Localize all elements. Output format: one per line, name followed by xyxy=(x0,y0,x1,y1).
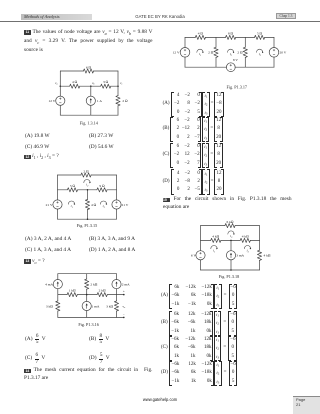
resistor 2kohm centre xyxy=(85,279,89,289)
svg-text:+: + xyxy=(123,290,125,294)
resistor 2ohm branch1 xyxy=(214,47,218,57)
svg-text:3 mA: 3 mA xyxy=(236,254,244,258)
svg-text:i1: i1 xyxy=(199,52,201,57)
wire: circuit3 right rail xyxy=(116,274,118,280)
current source 1A xyxy=(86,96,95,105)
wire: circuit2 top rail xyxy=(58,174,82,176)
resistor 4kohm right xyxy=(240,238,250,242)
wire: circuit1 right rail xyxy=(117,71,119,96)
wire: circuit2 right rail xyxy=(116,175,118,200)
svg-text:6 V: 6 V xyxy=(191,254,197,258)
wire: circuit2 centre branch xyxy=(87,190,89,200)
svg-text:i1: i1 xyxy=(213,249,215,254)
svg-text:Fig. P1.3.15: Fig. P1.3.15 xyxy=(77,223,97,228)
svg-text:4 Ω: 4 Ω xyxy=(72,80,78,84)
resistor 4kohm left xyxy=(211,238,221,242)
wire: circuit1 bottom rail xyxy=(60,114,118,116)
resistor 9ohm xyxy=(97,188,107,192)
svg-text:3 kΩ: 3 kΩ xyxy=(46,304,53,308)
svg-text:2 mA: 2 mA xyxy=(122,282,130,286)
svg-text:4 Ω: 4 Ω xyxy=(91,203,97,207)
node b xyxy=(90,85,92,87)
voltage source 6V xyxy=(196,251,205,260)
svg-text:2 Ω: 2 Ω xyxy=(83,169,89,173)
mesh current i3 xyxy=(100,201,106,204)
svg-text:1 A: 1 A xyxy=(97,99,102,103)
svg-text:i3: i3 xyxy=(259,52,262,57)
wire: circuit3 bottom rail xyxy=(58,316,117,318)
resistor 8ohm xyxy=(226,35,236,39)
wire: circuit2 left rail xyxy=(57,175,59,200)
wire: vo stub bottom xyxy=(117,316,124,318)
current source 2mA xyxy=(112,280,121,289)
svg-text:Fig. P1.3.18: Fig. P1.3.18 xyxy=(219,274,239,279)
voltage source 12V xyxy=(56,96,65,105)
svg-text:2 Ω: 2 Ω xyxy=(237,51,243,55)
wire: circuit5 middle rail xyxy=(201,239,211,241)
resistor 1kohm xyxy=(67,293,77,297)
footer xyxy=(0,397,320,402)
wire: circuit4 vertical branch 2 xyxy=(244,37,246,47)
svg-text:i2: i2 xyxy=(86,183,89,188)
voltage source 21V left xyxy=(53,200,62,209)
current source 3mA xyxy=(226,251,235,260)
wire: circuit1 top rail xyxy=(60,70,83,72)
wire: circuit3 top rail xyxy=(58,273,117,275)
svg-text:va: va xyxy=(55,81,58,86)
svg-text:4 kΩ: 4 kΩ xyxy=(212,235,219,239)
svg-text:8 V: 8 V xyxy=(233,58,239,62)
mesh current i2 xyxy=(227,49,233,52)
svg-text:12 V: 12 V xyxy=(48,99,55,103)
svg-text:4 kΩ: 4 kΩ xyxy=(264,254,271,258)
svg-text:i3: i3 xyxy=(103,204,106,209)
wire: circuit3 centre branch xyxy=(86,274,88,279)
resistor 2ohm right xyxy=(116,96,120,106)
svg-text:5 Ω: 5 Ω xyxy=(70,184,76,188)
svg-text:1 mA: 1 mA xyxy=(92,304,100,308)
wire: circuit5 bottom rail xyxy=(201,269,260,271)
svg-text:Fig. P1.3.16: Fig. P1.3.16 xyxy=(78,322,98,327)
svg-text:12 V: 12 V xyxy=(173,51,180,55)
wire: circuit2 bottom rail xyxy=(58,218,117,220)
svg-text:2 Ω: 2 Ω xyxy=(208,51,214,55)
resistor 5ohm xyxy=(255,35,265,39)
node junction centre/middle rail xyxy=(86,294,88,296)
resistor 3kohm right xyxy=(114,301,118,311)
node c xyxy=(117,85,119,87)
wire: vo stub top xyxy=(117,294,124,296)
svg-text:1 kΩ: 1 kΩ xyxy=(69,288,76,292)
node top of 3mA xyxy=(230,240,232,242)
svg-text:i2: i2 xyxy=(230,234,233,239)
wire: circuit2 middle rail xyxy=(58,189,68,191)
wire: circuit1 middle rail xyxy=(60,85,69,87)
wire: circuit4 top rail xyxy=(185,36,195,38)
svg-text:6 kΩ: 6 kΩ xyxy=(226,220,233,224)
wire: circuit1 left rail xyxy=(59,71,61,96)
svg-text:3 Ω: 3 Ω xyxy=(103,80,109,84)
svg-text:21 V: 21 V xyxy=(122,203,129,207)
current source 1mA xyxy=(82,301,91,310)
wire: circuit1 centre branch xyxy=(90,86,92,96)
svg-text:Fig. P1.3.17: Fig. P1.3.17 xyxy=(227,85,247,90)
resistor 3kohm left xyxy=(56,301,60,311)
node a xyxy=(60,85,62,87)
resistor 6kohm top xyxy=(225,224,235,228)
svg-text:i2: i2 xyxy=(230,52,233,57)
resistor 5ohm xyxy=(67,188,77,192)
resistor 4ohm xyxy=(195,35,205,39)
svg-text:4 mA: 4 mA xyxy=(45,282,53,286)
svg-text:4 kΩ: 4 kΩ xyxy=(242,235,249,239)
mesh current i3 xyxy=(244,246,250,249)
wire: circuit3 middle rail xyxy=(58,294,67,296)
wire: circuit4 bottom rail xyxy=(185,66,226,68)
resistor 4ohm xyxy=(70,84,80,88)
svg-text:i3: i3 xyxy=(247,249,250,254)
mesh current i2 xyxy=(228,231,234,234)
resistor 2kohm horizontal xyxy=(97,293,107,297)
header band xyxy=(21,14,92,21)
svg-text:2 kΩ: 2 kΩ xyxy=(90,282,97,286)
svg-text:5 Ω: 5 Ω xyxy=(257,31,263,35)
wire: circuit5 left rail xyxy=(200,226,202,251)
resistor 6ohm top xyxy=(83,69,93,73)
svg-text:21 V: 21 V xyxy=(46,203,53,207)
mesh current i1 xyxy=(68,201,74,204)
wire: circuit4 right rail xyxy=(273,37,275,47)
mesh current i1 xyxy=(211,246,217,249)
svg-text:3 kΩ: 3 kΩ xyxy=(106,304,113,308)
resistor 3ohm xyxy=(101,84,111,88)
voltage source 12V xyxy=(180,48,190,58)
svg-text:vc: vc xyxy=(120,81,122,86)
node junction bottom of 4ohm xyxy=(87,218,89,220)
wire: circuit5 centre branch xyxy=(230,240,232,250)
wire: circuit3 left rail xyxy=(57,274,59,280)
svg-text:i1: i1 xyxy=(71,204,73,209)
voltage source 20V xyxy=(269,48,279,58)
svg-text:8 Ω: 8 Ω xyxy=(228,31,234,35)
svg-text:−: − xyxy=(123,313,125,317)
voltage source 8V bottom xyxy=(226,63,235,72)
resistor 2ohm top xyxy=(81,173,91,177)
mesh current i3 xyxy=(256,49,262,52)
svg-text:6 Ω: 6 Ω xyxy=(86,66,92,70)
svg-text:2 kΩ: 2 kΩ xyxy=(99,288,106,292)
node junction top of 4ohm xyxy=(87,189,89,191)
svg-text:9 Ω: 9 Ω xyxy=(99,184,105,188)
current source 4mA xyxy=(53,280,62,289)
resistor 2ohm branch2 xyxy=(243,47,247,57)
wire: circuit5 top rail xyxy=(201,225,226,227)
wire: circuit5 right rail xyxy=(259,226,261,241)
svg-text:20 V: 20 V xyxy=(280,51,287,55)
svg-text:vo: vo xyxy=(122,304,126,309)
resistor 4kohm right rail xyxy=(257,250,261,260)
mesh current i1 xyxy=(197,49,203,52)
svg-text:2 Ω: 2 Ω xyxy=(122,99,128,103)
voltage source 21V right xyxy=(112,200,121,209)
node bottom of 3mA xyxy=(230,269,232,271)
svg-text:vb: vb xyxy=(92,81,95,86)
svg-text:4 Ω: 4 Ω xyxy=(198,31,204,35)
wire: circuit4 vertical branch 1 xyxy=(215,37,217,47)
svg-text:Fig. 1.3.14: Fig. 1.3.14 xyxy=(80,120,99,125)
resistor 4ohm centre xyxy=(85,199,89,209)
mesh current i2 xyxy=(84,180,90,183)
wire: circuit4 left rail xyxy=(184,37,186,47)
